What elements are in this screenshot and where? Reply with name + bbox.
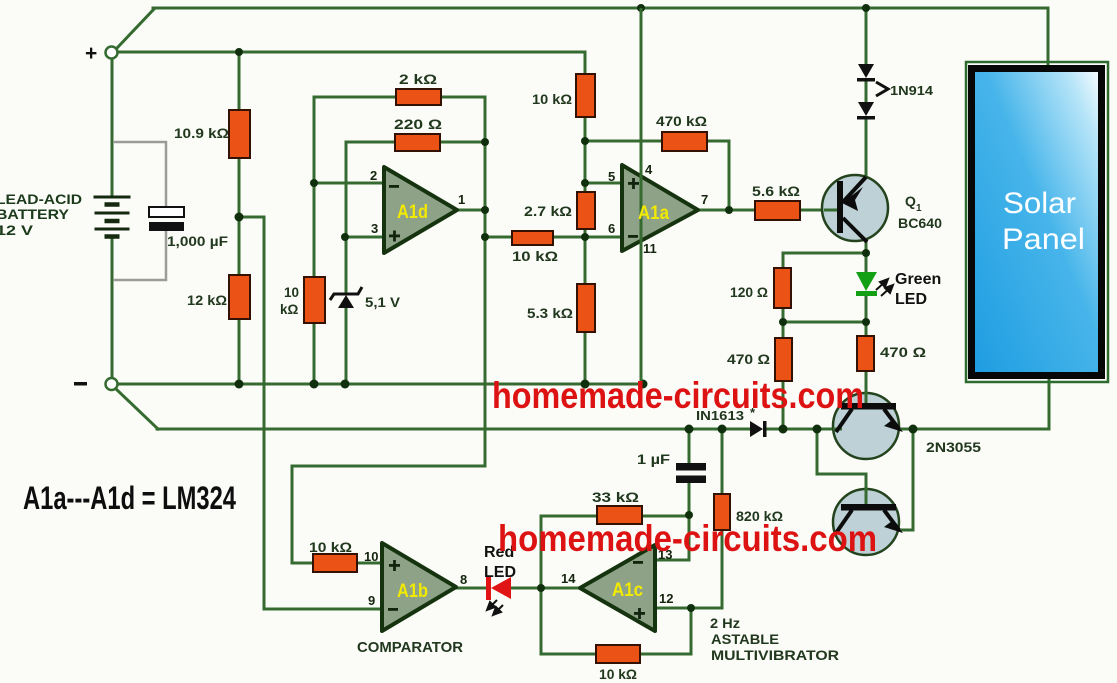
wire divider tap to A1b pin9 — [239, 217, 382, 609]
wire right 470R bottom to Q2 base — [865, 371, 868, 403]
wire Q3 emitter exit — [897, 429, 913, 530]
wire red led to node — [511, 587, 541, 590]
wire negative row y429 right of diode — [767, 428, 834, 431]
svg-text:220 Ω: 220 Ω — [394, 116, 442, 132]
resistor 10.9k — [229, 110, 250, 158]
wire top positive rail — [153, 8, 1048, 66]
svg-text:A1b: A1b — [397, 581, 428, 602]
svg-text:BATTERY: BATTERY — [0, 206, 70, 222]
resistor 5.3k — [577, 284, 595, 332]
wire A1a supply pins 4-11 — [640, 8, 643, 384]
wire 220 left to zener top — [346, 142, 395, 292]
wire 5.6k to Q1 base — [800, 209, 824, 212]
svg-text:2 kΩ: 2 kΩ — [399, 71, 437, 87]
wire 5.3k bottom leg — [584, 332, 587, 384]
led green — [856, 272, 877, 291]
label battery LEAD-ACID BATTERY 12 V — [0, 191, 82, 238]
svg-text:10 kΩ: 10 kΩ — [512, 248, 558, 264]
resistor 220 — [395, 134, 440, 151]
wire 10k bottom row left — [541, 653, 596, 656]
svg-text:2: 2 — [370, 168, 377, 183]
svg-text:1 µF: 1 µF — [637, 452, 670, 467]
svg-text:10: 10 — [364, 549, 378, 564]
resistor 10k A1c bottom — [596, 645, 640, 663]
wire Q1 collector to 120R branch — [783, 253, 866, 268]
resistor 10k A1a pin6 — [512, 231, 553, 245]
wire Q3 base L-path — [817, 429, 866, 504]
svg-text:33 kΩ: 33 kΩ — [592, 489, 639, 505]
wire 10k vertical resistor bottom leg — [313, 323, 316, 384]
wire 820k bottom to A1c pin12 — [691, 530, 722, 608]
wire A1c pin12 stub — [655, 607, 691, 610]
svg-text:A1a: A1a — [638, 203, 669, 224]
label 1N914 — [876, 82, 888, 96]
wire between 1N914 diodes — [865, 80, 868, 102]
resistor 2.7k — [577, 192, 595, 229]
svg-text:1,000 µF: 1,000 µF — [167, 234, 228, 249]
wire diagonal from - terminal — [116, 389, 158, 429]
svg-text:A1c: A1c — [612, 580, 643, 601]
wire gray capacitor loop — [113, 142, 166, 280]
wire zener bottom leg — [345, 307, 348, 384]
wire A1a 10k top resistor legs — [584, 117, 587, 192]
wire 12k bottom leg — [238, 319, 241, 384]
resistor 10k A1b input — [313, 554, 357, 572]
svg-text:Q: Q — [905, 193, 916, 209]
svg-text:2N3055: 2N3055 — [926, 439, 981, 455]
wire 2k right via A1d output column down to A1b 10k input — [292, 97, 485, 563]
svg-text:8: 8 — [460, 572, 467, 587]
svg-text:5,1 V: 5,1 V — [365, 294, 401, 310]
svg-text:Green: Green — [895, 271, 941, 288]
wire pin12 node to 10k bottom row — [640, 608, 691, 654]
wire 2.7k to 5.3k column — [584, 229, 587, 284]
svg-text:+: + — [85, 42, 97, 65]
svg-text:LED: LED — [484, 564, 516, 581]
svg-text:470 Ω: 470 Ω — [727, 351, 770, 367]
resistor 120 — [774, 268, 791, 308]
wire diagonal from + terminal to top rail — [117, 9, 154, 48]
svg-text:5.3 kΩ: 5.3 kΩ — [527, 305, 573, 321]
wire left 470R top leg — [782, 322, 785, 338]
wire 470k right corner to output row — [707, 141, 729, 210]
wire A1a pin6 row right — [553, 236, 622, 239]
svg-text:470 kΩ: 470 kΩ — [656, 113, 707, 129]
resistor 470k — [662, 132, 707, 151]
svg-text:2 Hz: 2 Hz — [710, 615, 740, 631]
wire + rail y52 — [118, 52, 585, 74]
resistor 10k vertical at zener — [304, 277, 325, 323]
transistor Q3 2N3055 — [833, 489, 899, 555]
svg-text:7: 7 — [701, 192, 708, 207]
wire 1uF bottom leg to 33k node — [688, 483, 691, 515]
resistor 470 right — [857, 336, 874, 371]
svg-text:LED: LED — [895, 291, 927, 308]
svg-text:11: 11 — [643, 241, 657, 256]
resistor 5.6k — [755, 201, 800, 220]
svg-text:Solar: Solar — [1003, 187, 1076, 220]
wire A1b 10k input right — [357, 562, 382, 565]
wire 1uF top leg — [688, 429, 691, 463]
svg-text:homemade-circuits.com: homemade-circuits.com — [492, 375, 864, 416]
wire 470k row left — [585, 140, 662, 143]
wire emitter junction to solar panel bottom — [913, 380, 1049, 429]
wire A1a pin5 row — [585, 182, 622, 185]
wire right 470R top leg — [865, 322, 868, 336]
battery B1 12V — [94, 197, 131, 237]
diode 1N914 upper — [858, 64, 874, 78]
transistor Q2 2N3055 — [833, 393, 899, 459]
led red — [486, 577, 491, 600]
capacitor C1 1000uF plate top — [149, 207, 184, 217]
svg-text:5.6 kΩ: 5.6 kΩ — [752, 183, 800, 199]
wire A1b output to red led — [457, 587, 487, 590]
terminal + — [106, 47, 118, 59]
svg-text:Panel: Panel — [1002, 223, 1085, 256]
svg-text:MULTIVIBRATOR: MULTIVIBRATOR — [711, 647, 839, 663]
svg-text:470 Ω: 470 Ω — [880, 344, 926, 360]
svg-text:1: 1 — [458, 192, 465, 207]
resistor 33k — [597, 506, 642, 524]
wire 33k row left — [541, 515, 597, 518]
resistor 2k — [396, 89, 441, 105]
op-amp U1a A1a — [622, 165, 698, 251]
wire A1a pin6 row left — [485, 236, 512, 239]
wire - rail y384 — [118, 383, 645, 386]
wire battery positive lead — [111, 59, 114, 198]
solar panel — [966, 62, 1108, 382]
wire A1c output — [541, 587, 580, 590]
op-amp U1d A1d — [384, 167, 457, 253]
wire 220 right to column — [440, 141, 485, 144]
svg-text:12 kΩ: 12 kΩ — [187, 292, 227, 308]
wire Q1 collector down — [865, 241, 868, 272]
wire A1c feedback column x541 — [540, 516, 543, 654]
svg-text:10 kΩ: 10 kΩ — [532, 91, 572, 107]
resistor 10k top A1a — [576, 74, 595, 117]
wire top rail to 1N914 — [865, 8, 868, 64]
svg-text:2.7 kΩ: 2.7 kΩ — [524, 203, 572, 219]
op-amp U1b A1b — [382, 543, 456, 631]
wire 10.9k to 12k leg — [238, 158, 241, 275]
svg-text:A1d: A1d — [397, 202, 428, 223]
svg-text:LEAD-ACID: LEAD-ACID — [0, 191, 82, 207]
wire 33k row right — [642, 515, 689, 518]
svg-text:10: 10 — [284, 285, 299, 300]
terminal - — [106, 378, 118, 390]
wire Q2 emitter to junction — [897, 428, 913, 431]
wire A1d pin2 row — [314, 182, 384, 185]
diode 1N1613 — [750, 421, 763, 437]
resistor 820k — [714, 494, 730, 530]
svg-text:BC640: BC640 — [898, 215, 942, 231]
svg-text:homemade-circuits.com: homemade-circuits.com — [498, 518, 877, 559]
svg-text:A1a---A1d = LM324: A1a---A1d = LM324 — [23, 480, 236, 516]
wire battery negative lead — [111, 237, 114, 378]
svg-text:1N914: 1N914 — [890, 83, 934, 98]
resistor 470 left — [775, 338, 792, 381]
svg-text:10 kΩ: 10 kΩ — [599, 666, 637, 682]
svg-text:6: 6 — [608, 221, 615, 236]
svg-text:ASTABLE: ASTABLE — [711, 631, 779, 647]
wire 120R bottom leg — [782, 308, 785, 322]
wire 1N914 to Q1 emitter — [865, 118, 868, 176]
svg-text:9: 9 — [368, 593, 375, 608]
capacitor C1 1000uF plate bottom — [149, 222, 184, 231]
zener D1 5.1V — [330, 287, 362, 300]
wire A1d output — [457, 209, 485, 212]
svg-text:5: 5 — [608, 169, 615, 184]
wire 10.9k top leg — [238, 52, 241, 110]
svg-text:kΩ: kΩ — [280, 302, 299, 317]
wire 33k node to A1c pin13 — [655, 515, 689, 560]
svg-text:10 kΩ: 10 kΩ — [309, 539, 352, 555]
svg-text:4: 4 — [645, 162, 653, 177]
op-amp U1c A1c — [580, 545, 655, 631]
svg-text:120 Ω: 120 Ω — [730, 284, 768, 300]
diode 1N914 lower — [858, 102, 874, 116]
svg-text:12: 12 — [659, 591, 673, 606]
capacitor C2 1uF — [676, 463, 706, 471]
resistor 12k — [229, 275, 250, 319]
svg-text:3: 3 — [371, 221, 378, 236]
wire left 470R bottom leg to row429 — [782, 381, 785, 429]
svg-text:COMPARATOR: COMPARATOR — [357, 639, 463, 656]
wire A1a output row — [698, 209, 755, 212]
wire negative row y429 left of diode — [157, 428, 751, 431]
wire 820k top leg — [721, 429, 724, 494]
svg-text:10.9 kΩ: 10.9 kΩ — [174, 125, 229, 141]
wire A1d pin3 row — [345, 236, 384, 239]
wire led node row y322 — [783, 321, 866, 324]
wire green led cathode down — [865, 296, 868, 322]
wire 2k left to 10k vertical resistor — [314, 97, 396, 277]
svg-text:14: 14 — [561, 571, 576, 586]
svg-text:12 V: 12 V — [0, 222, 34, 238]
transistor Q1 BC640 — [822, 175, 888, 241]
svg-text:1: 1 — [916, 203, 922, 214]
